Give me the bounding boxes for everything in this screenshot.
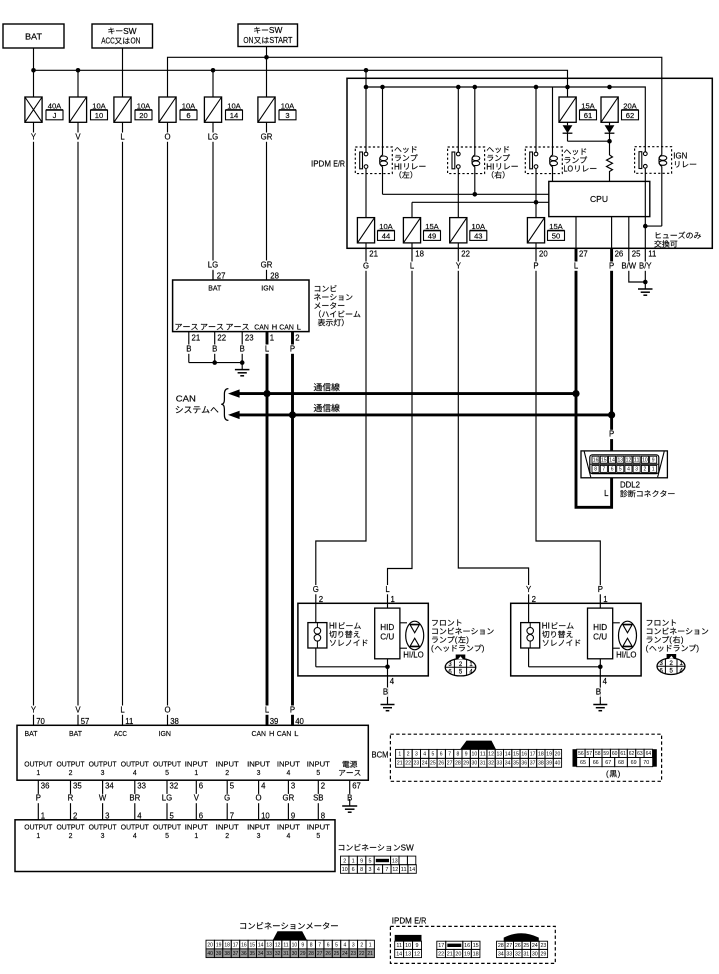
svg-text:4: 4 <box>133 833 137 840</box>
svg-text:25: 25 <box>632 250 641 259</box>
CAN L label tsushinsen <box>314 404 340 412</box>
BCM box <box>17 725 368 780</box>
svg-text:3: 3 <box>635 467 638 473</box>
svg-text:OUTPUT: OUTPUT <box>57 824 86 831</box>
wire relay1 coil feed <box>382 87 384 155</box>
svg-text:22: 22 <box>461 250 470 259</box>
svg-text:L: L <box>120 132 125 141</box>
svg-text:40: 40 <box>555 761 561 767</box>
svg-text:3: 3 <box>291 782 295 791</box>
BCM top pin labels <box>31 706 36 715</box>
svg-text:R: R <box>68 794 74 803</box>
svg-text:12: 12 <box>392 867 398 873</box>
svg-text:OUTPUT: OUTPUT <box>57 761 86 768</box>
svg-text:61: 61 <box>584 111 592 120</box>
svg-text:5: 5 <box>619 467 622 473</box>
svg-text:21: 21 <box>447 951 453 957</box>
svg-text:40: 40 <box>295 717 304 726</box>
svg-text:W: W <box>99 794 107 803</box>
fusible link 40A J <box>25 97 42 122</box>
svg-text:P: P <box>36 794 41 803</box>
svg-text:C/U: C/U <box>593 633 607 642</box>
svg-text:CAN: CAN <box>279 323 294 332</box>
fuse 15A 50 <box>527 218 544 243</box>
wire P CAN pin26 thick <box>610 248 613 451</box>
svg-text:Y: Y <box>31 132 37 141</box>
wire Y pin22 to right lamp pin 2 <box>458 248 528 603</box>
svg-text:22: 22 <box>438 951 444 957</box>
svg-text:11: 11 <box>396 943 402 949</box>
svg-text:12: 12 <box>488 752 494 758</box>
svg-text:14: 14 <box>409 867 415 873</box>
CPU box <box>549 181 650 216</box>
svg-text:B: B <box>383 687 388 696</box>
svg-text:H: H <box>269 729 274 738</box>
svg-text:OUTPUT: OUTPUT <box>89 761 118 768</box>
svg-text:L: L <box>574 261 579 270</box>
svg-text:20: 20 <box>455 951 461 957</box>
svg-text:18: 18 <box>538 752 544 758</box>
svg-text:5: 5 <box>369 858 372 864</box>
svg-text:35: 35 <box>73 782 82 791</box>
svg-text:SW: SW <box>123 27 137 36</box>
wire relay2 contact feed <box>457 87 459 152</box>
svg-text:10A: 10A <box>92 101 106 110</box>
svg-text:OUTPUT: OUTPUT <box>153 824 182 831</box>
front combination lamp right box <box>511 603 641 676</box>
svg-text:11: 11 <box>283 942 288 948</box>
svg-text:J: J <box>53 111 57 120</box>
lamp pin 4 and ground <box>387 676 389 698</box>
svg-text:20: 20 <box>539 250 548 259</box>
junction dots on buses <box>31 68 36 73</box>
svg-text:4: 4 <box>286 833 290 840</box>
svg-text:12: 12 <box>626 458 632 464</box>
svg-text:L: L <box>120 705 125 714</box>
svg-text:10A: 10A <box>281 101 295 110</box>
svg-text:16: 16 <box>241 942 247 948</box>
svg-text:70: 70 <box>36 717 45 726</box>
BCM power ground pin 67 <box>349 780 351 799</box>
svg-text:8: 8 <box>457 752 460 758</box>
wire relay2 coil feed <box>474 87 476 155</box>
wire P CAN L meter pin2 to BCM pin 40 thick <box>291 332 294 726</box>
svg-text:CAN: CAN <box>252 729 267 738</box>
svg-text:INPUT: INPUT <box>216 761 240 768</box>
svg-text:39: 39 <box>546 761 552 767</box>
svg-text:P: P <box>609 261 614 270</box>
svg-text:26: 26 <box>325 951 331 957</box>
svg-text:28: 28 <box>308 951 314 957</box>
svg-text:4: 4 <box>344 942 347 948</box>
CAN L bus line <box>238 413 612 416</box>
svg-text:26: 26 <box>515 943 521 949</box>
svg-text:2: 2 <box>532 595 536 604</box>
svg-text:6: 6 <box>186 111 190 120</box>
svg-text:50: 50 <box>552 231 560 240</box>
wire ACC down to fuse 20 <box>122 48 124 97</box>
svg-text:L: L <box>604 489 609 498</box>
svg-text:5: 5 <box>165 770 169 777</box>
svg-text:31: 31 <box>480 761 486 767</box>
svg-text:CAN: CAN <box>254 323 268 332</box>
svg-text:24: 24 <box>422 761 428 767</box>
wire L CAN H meter pin1 to BCM pin 39 thick <box>266 332 269 726</box>
fuse 10A 3 <box>258 97 275 122</box>
svg-text:11: 11 <box>634 458 640 464</box>
svg-text:38: 38 <box>224 951 230 957</box>
svg-text:Y: Y <box>31 705 37 714</box>
svg-text:20: 20 <box>139 111 147 120</box>
svg-text:Y: Y <box>526 585 532 594</box>
svg-text:9: 9 <box>301 942 304 948</box>
IPDM internal feed line <box>366 70 645 152</box>
svg-text:IPDM: IPDM <box>311 160 331 169</box>
meter ground pins 21 22 23 <box>188 332 190 363</box>
svg-text:BAT: BAT <box>25 33 42 42</box>
svg-text:OUTPUT: OUTPUT <box>121 761 150 768</box>
svg-text:2: 2 <box>644 467 647 473</box>
svg-text:OUTPUT: OUTPUT <box>24 761 53 768</box>
svg-text:P: P <box>290 705 295 714</box>
svg-text:62: 62 <box>629 751 635 757</box>
svg-text:33: 33 <box>506 951 512 957</box>
svg-text:21: 21 <box>192 334 201 343</box>
CAN H label tsushinsen <box>314 383 340 391</box>
svg-text:1: 1 <box>194 770 198 777</box>
svg-text:L: L <box>265 344 270 353</box>
svg-text:7: 7 <box>385 867 388 873</box>
svg-text:27: 27 <box>217 271 226 280</box>
svg-text:HI/LO: HI/LO <box>403 651 423 660</box>
svg-text:30: 30 <box>532 951 538 957</box>
svg-text:HI: HI <box>329 622 337 631</box>
HID control unit <box>387 603 389 608</box>
svg-text:10: 10 <box>95 111 103 120</box>
svg-text:INPUT: INPUT <box>247 761 271 768</box>
svg-text:24: 24 <box>532 943 538 949</box>
svg-text:33: 33 <box>137 782 146 791</box>
svg-text:CPU: CPU <box>590 194 608 204</box>
wire B/Y pin11 to ground <box>644 248 646 282</box>
svg-text:5: 5 <box>432 752 435 758</box>
svg-text:14: 14 <box>396 951 402 957</box>
svg-text:INPUT: INPUT <box>307 824 331 831</box>
svg-text:39: 39 <box>270 717 279 726</box>
wire BAT down <box>33 48 35 97</box>
svg-text:HI: HI <box>542 622 550 631</box>
svg-text:ON: ON <box>131 37 141 46</box>
svg-text:L: L <box>294 729 298 738</box>
svg-text:65: 65 <box>580 760 586 766</box>
wire Y fuse J to BCM pin 70 <box>33 122 35 725</box>
svg-text:38: 38 <box>538 761 544 767</box>
wire fuse10 feed <box>77 70 79 97</box>
power source box BAT <box>3 24 64 48</box>
combination meter box <box>173 280 309 332</box>
svg-text:63: 63 <box>637 751 643 757</box>
svg-text:57: 57 <box>587 751 593 757</box>
fuse only replace note <box>656 232 701 239</box>
svg-text:67: 67 <box>605 760 611 766</box>
svg-text:18: 18 <box>224 942 230 948</box>
svg-text:ON: ON <box>243 36 253 45</box>
svg-text:2: 2 <box>321 782 325 791</box>
ground meter <box>241 363 243 370</box>
svg-text:B: B <box>240 344 245 353</box>
svg-text:1: 1 <box>36 770 40 777</box>
svg-text:V: V <box>194 794 200 803</box>
diode junction line to resistor <box>568 140 610 142</box>
svg-text:67: 67 <box>352 782 361 791</box>
svg-text:14: 14 <box>609 458 615 464</box>
svg-text:10A: 10A <box>472 222 486 231</box>
svg-text:): ) <box>696 644 699 653</box>
relay headlamp HI left <box>355 147 392 174</box>
svg-text:E/R: E/R <box>333 160 345 169</box>
svg-text:30: 30 <box>472 761 478 767</box>
svg-text:5: 5 <box>165 833 169 840</box>
svg-text:29: 29 <box>540 951 546 957</box>
svg-text:CAN: CAN <box>277 729 292 738</box>
svg-text:14: 14 <box>505 752 511 758</box>
svg-text:11: 11 <box>648 250 656 259</box>
svg-text:SB: SB <box>313 794 323 803</box>
svg-text:1: 1 <box>194 833 198 840</box>
svg-text:21: 21 <box>397 761 403 767</box>
svg-text:64: 64 <box>646 751 652 757</box>
svg-text:BAT: BAT <box>208 283 221 292</box>
svg-text:1: 1 <box>270 334 274 343</box>
svg-text:HID: HID <box>593 623 607 632</box>
svg-text:18: 18 <box>415 250 424 259</box>
svg-text:11: 11 <box>480 752 486 758</box>
svg-text:5: 5 <box>230 782 235 791</box>
svg-text:OUTPUT: OUTPUT <box>153 761 182 768</box>
svg-text:34: 34 <box>505 761 511 767</box>
svg-text:L: L <box>410 261 415 270</box>
svg-text:BCM: BCM <box>372 751 389 760</box>
svg-text:23: 23 <box>351 951 357 957</box>
svg-text:V: V <box>75 705 81 714</box>
svg-text:33: 33 <box>497 761 503 767</box>
fuse 10A 43 <box>450 218 467 243</box>
upper bus from fuse 6 to IGN relay coil <box>168 57 662 154</box>
fuse 20A 62 <box>601 97 618 122</box>
svg-text:32: 32 <box>515 951 521 957</box>
HI beam solenoid <box>315 603 317 622</box>
svg-text:E/R: E/R <box>414 917 426 926</box>
fuse 15A 49 <box>403 218 420 243</box>
svg-text:INPUT: INPUT <box>185 761 209 768</box>
svg-text:34: 34 <box>105 782 114 791</box>
svg-text:(: ( <box>455 636 458 645</box>
DDL2 diagnostic connector <box>581 451 667 478</box>
svg-text:V: V <box>75 132 81 141</box>
svg-text:15A: 15A <box>425 222 439 231</box>
svg-text:B/Y: B/Y <box>639 261 652 270</box>
svg-text:IGN: IGN <box>673 152 687 161</box>
ground IPDM <box>643 280 648 285</box>
svg-text:HID: HID <box>380 623 394 632</box>
svg-text:16: 16 <box>593 458 599 464</box>
svg-text:IGN: IGN <box>159 729 172 738</box>
svg-text:15A: 15A <box>549 222 563 231</box>
svg-text:27: 27 <box>317 951 323 957</box>
svg-text:17: 17 <box>438 943 444 949</box>
wire L pin18 to left lamp pin 1 <box>388 248 413 603</box>
svg-text:4: 4 <box>261 782 266 791</box>
svg-text:HI: HI <box>394 162 402 171</box>
svg-text:SW: SW <box>269 26 283 35</box>
fuse 49 feed line to CPU <box>412 201 549 203</box>
svg-text:15A: 15A <box>581 101 595 110</box>
svg-text:7: 7 <box>318 942 321 948</box>
svg-text:LG: LG <box>208 132 218 141</box>
svg-text:(: ( <box>646 644 649 653</box>
fuse 10A 6 <box>159 97 176 122</box>
power source box key switch ON or START <box>238 24 298 47</box>
svg-text:(: ( <box>431 644 434 653</box>
svg-text:57: 57 <box>81 717 90 726</box>
svg-text:8: 8 <box>310 942 313 948</box>
svg-text:1: 1 <box>603 595 607 604</box>
svg-text:30: 30 <box>292 951 298 957</box>
svg-text:15: 15 <box>250 942 256 948</box>
svg-text:4: 4 <box>286 770 290 777</box>
svg-text:LO: LO <box>564 165 574 174</box>
svg-text:2: 2 <box>295 334 299 343</box>
svg-text:32: 32 <box>275 951 281 957</box>
wire LO relay coil feed <box>552 87 554 155</box>
svg-text:28: 28 <box>498 943 504 949</box>
lamp right connector <box>657 658 685 674</box>
svg-text:10: 10 <box>472 752 478 758</box>
svg-text:4: 4 <box>627 467 630 473</box>
svg-text:C/U: C/U <box>380 633 394 642</box>
svg-text:3: 3 <box>257 833 261 840</box>
svg-text:IPDM: IPDM <box>392 917 412 926</box>
svg-text:IGN: IGN <box>261 283 274 292</box>
svg-text:56: 56 <box>578 751 584 757</box>
svg-text:OUTPUT: OUTPUT <box>89 824 118 831</box>
svg-text:21: 21 <box>369 250 378 259</box>
wire fuse14 feed <box>212 70 214 97</box>
fuse 10A 14 <box>204 97 221 122</box>
svg-text:37: 37 <box>233 951 239 957</box>
diode under fuse 62 <box>605 125 615 133</box>
wire LG fuse 14 to meter pin 27 <box>212 122 214 280</box>
svg-text:40A: 40A <box>48 101 62 110</box>
svg-text:10: 10 <box>642 458 648 464</box>
IPDM E/R box <box>347 78 712 248</box>
power source box key switch ACC or ON <box>92 24 153 48</box>
svg-text:P: P <box>598 585 603 594</box>
svg-text:7: 7 <box>448 752 451 758</box>
svg-text:1: 1 <box>36 833 40 840</box>
combination meter connector diagram <box>240 922 337 929</box>
svg-text:BR: BR <box>129 794 140 803</box>
svg-text:G: G <box>224 794 230 803</box>
relay coil return line to CPU <box>383 193 549 195</box>
svg-text:1: 1 <box>369 942 372 948</box>
svg-text:10: 10 <box>342 867 348 873</box>
svg-text:B: B <box>186 344 191 353</box>
relay headlamp HI right <box>448 147 485 174</box>
svg-text:13: 13 <box>497 752 503 758</box>
svg-text:6: 6 <box>327 942 330 948</box>
fuse 10A 20 <box>114 97 131 122</box>
svg-text:13: 13 <box>405 951 411 957</box>
diode under fuse 61 <box>563 125 573 133</box>
svg-text:43: 43 <box>474 231 482 240</box>
svg-text:3: 3 <box>369 867 372 873</box>
svg-text:4: 4 <box>603 677 608 686</box>
svg-text:36: 36 <box>41 782 50 791</box>
svg-text:19: 19 <box>216 942 222 948</box>
svg-text:O: O <box>256 794 262 803</box>
wire P pin20 to right lamp pin 1 <box>536 248 600 603</box>
front combination lamp left label <box>432 619 461 625</box>
svg-text:2: 2 <box>225 833 229 840</box>
svg-text:25: 25 <box>430 761 436 767</box>
svg-text:ACC: ACC <box>101 37 115 46</box>
svg-text:62: 62 <box>626 111 634 120</box>
HI beam solenoid <box>528 603 530 622</box>
svg-text:60: 60 <box>612 751 618 757</box>
svg-text:10A: 10A <box>182 101 196 110</box>
svg-text:7: 7 <box>602 467 605 473</box>
svg-text:10A: 10A <box>379 222 393 231</box>
front combination lamp right label <box>647 619 676 625</box>
svg-text:21: 21 <box>367 951 373 957</box>
svg-text:3: 3 <box>285 111 289 120</box>
svg-text:3: 3 <box>257 770 261 777</box>
svg-text:INPUT: INPUT <box>307 761 331 768</box>
svg-text:3: 3 <box>101 770 105 777</box>
svg-text:INPUT: INPUT <box>185 824 209 831</box>
svg-text:28: 28 <box>270 271 279 280</box>
svg-text:10A: 10A <box>137 101 151 110</box>
HID lamp bulb HI/LO <box>613 622 620 624</box>
svg-text:13: 13 <box>266 942 272 948</box>
svg-text:4: 4 <box>133 770 137 777</box>
svg-text:13: 13 <box>392 858 398 864</box>
svg-text:22: 22 <box>359 951 365 957</box>
svg-text:23: 23 <box>245 334 254 343</box>
svg-text:2: 2 <box>360 942 363 948</box>
svg-text:16: 16 <box>521 752 527 758</box>
svg-text:29: 29 <box>463 761 469 767</box>
svg-text:11: 11 <box>401 867 407 873</box>
svg-text:9: 9 <box>416 943 419 949</box>
svg-text:SW: SW <box>401 843 415 852</box>
svg-text:G: G <box>363 261 369 270</box>
svg-text:B: B <box>596 687 601 696</box>
front combination lamp left box <box>298 603 428 676</box>
svg-text:68: 68 <box>618 760 624 766</box>
svg-text:12: 12 <box>414 951 420 957</box>
svg-text:HI/LO: HI/LO <box>616 651 636 660</box>
svg-text:20: 20 <box>207 942 213 948</box>
svg-text:6: 6 <box>611 467 614 473</box>
svg-text:25: 25 <box>523 943 529 949</box>
svg-text:O: O <box>164 705 170 714</box>
svg-text:35: 35 <box>250 951 256 957</box>
svg-text:37: 37 <box>530 761 536 767</box>
svg-text:44: 44 <box>382 231 390 240</box>
svg-text:19: 19 <box>464 951 470 957</box>
